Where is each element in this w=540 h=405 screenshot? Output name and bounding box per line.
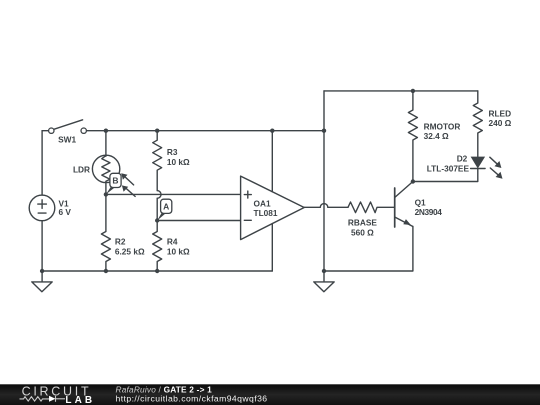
svg-text:SW1: SW1 [58,134,76,144]
svg-text:D2: D2 [457,153,468,163]
svg-text:240 Ω: 240 Ω [489,118,512,128]
svg-text:10 kΩ: 10 kΩ [167,157,190,167]
svg-text:6 V: 6 V [59,207,72,217]
svg-text:RBASE: RBASE [348,218,378,228]
svg-text:LTL-307EE: LTL-307EE [427,164,470,174]
svg-text:2N3904: 2N3904 [415,207,443,217]
svg-text:LDR: LDR [73,165,90,175]
svg-text:560 Ω: 560 Ω [351,228,374,238]
svg-text:Q1: Q1 [415,198,426,208]
svg-text:6.25 kΩ: 6.25 kΩ [115,246,145,256]
svg-text:32.4 Ω: 32.4 Ω [424,131,449,141]
svg-text:TL081: TL081 [254,208,278,218]
svg-text:http://circuitlab.com/ckfam94q: http://circuitlab.com/ckfam94qwqf36 [116,393,268,403]
svg-text:B: B [112,176,118,186]
svg-text:A: A [163,201,169,211]
svg-text:R3: R3 [167,147,178,157]
svg-text:LAB: LAB [65,395,95,405]
svg-text:10 kΩ: 10 kΩ [167,246,190,256]
svg-text:R4: R4 [167,237,178,247]
svg-text:OA1: OA1 [254,198,271,208]
svg-text:R2: R2 [115,237,126,247]
